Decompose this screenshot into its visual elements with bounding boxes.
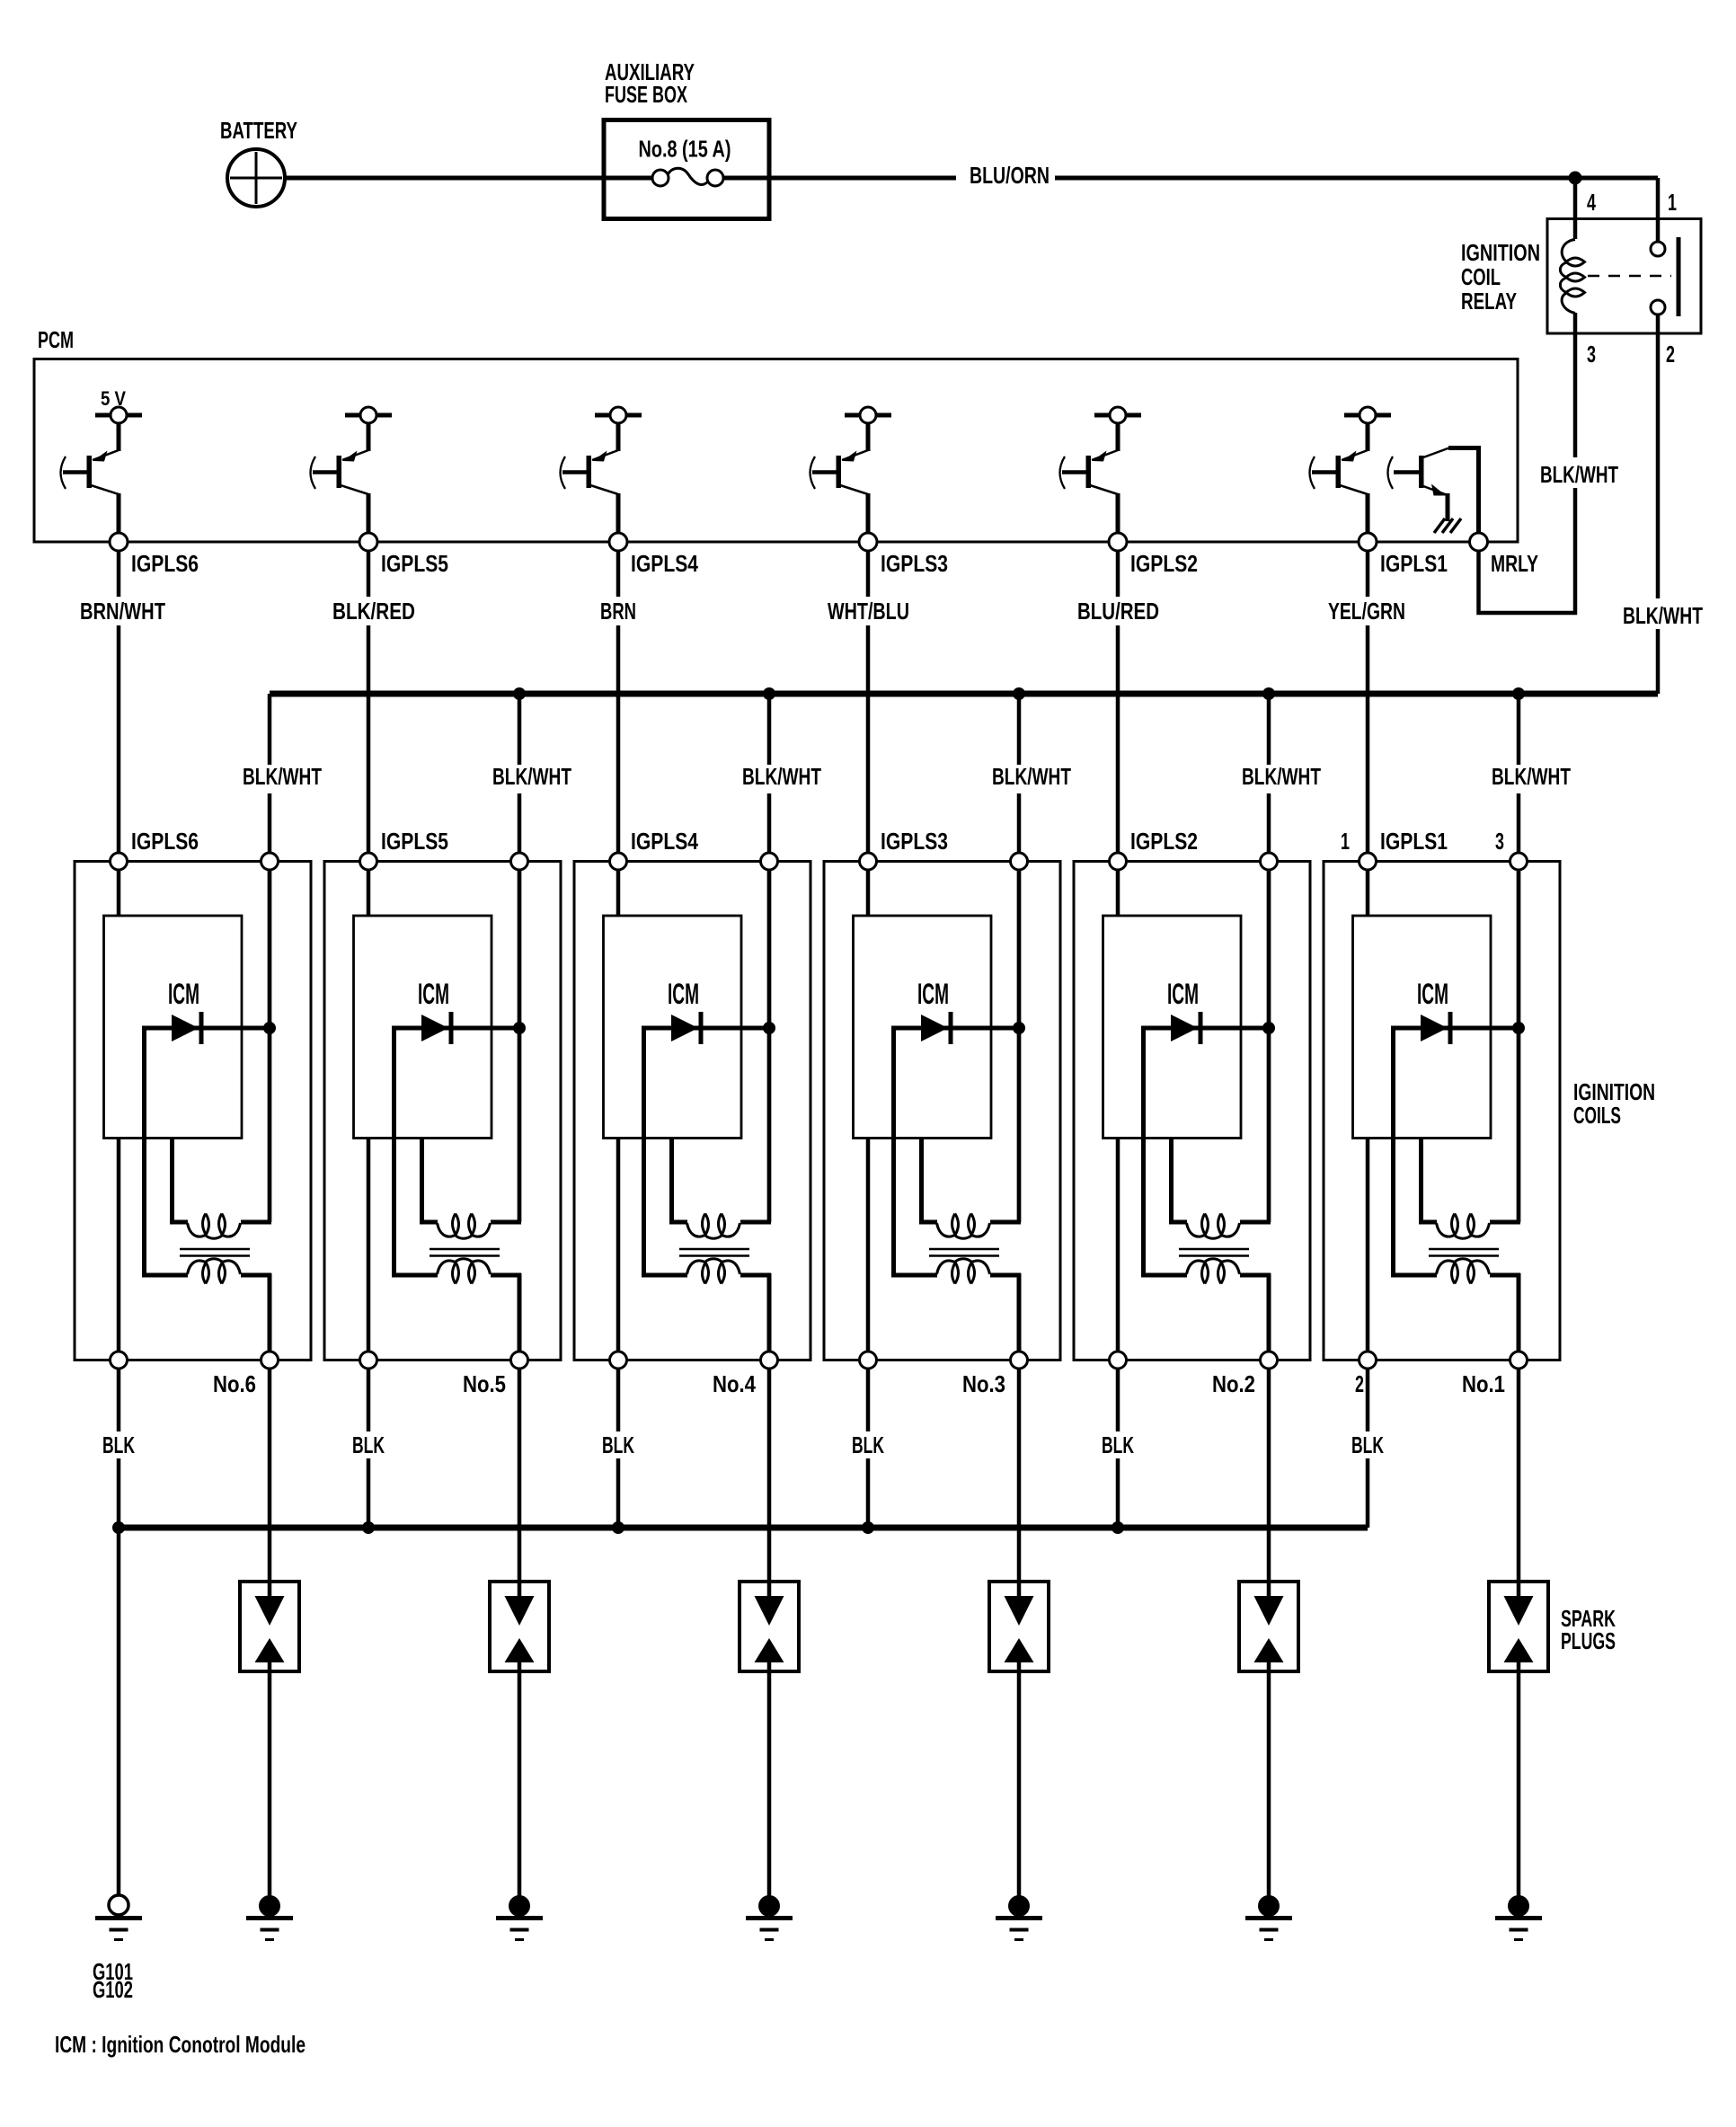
spark plug No.3 <box>989 1582 1049 1671</box>
transistor IGPLS2 driver <box>1060 407 1142 536</box>
relay actuation dashed line <box>1588 275 1671 278</box>
ground spark plug 3 <box>1008 1895 1030 1917</box>
BLK/WHT distribution bus <box>270 691 1658 697</box>
svg-text:RELAY: RELAY <box>1461 288 1517 315</box>
ground G101/G102 (open terminal) <box>109 1895 128 1915</box>
svg-text:IGPLS1: IGPLS1 <box>1380 550 1448 577</box>
wire coil No.6 secondary to spark plug <box>268 1360 272 1597</box>
svg-text:No.5: No.5 <box>463 1370 506 1397</box>
svg-text:No.8 (15 A): No.8 (15 A) <box>639 136 731 163</box>
svg-text:IGNITION: IGNITION <box>1461 239 1540 266</box>
fuse element left terminal <box>652 170 669 186</box>
svg-text:WHT/BLU: WHT/BLU <box>828 598 909 625</box>
svg-text:3: 3 <box>1587 341 1596 368</box>
wire relay pin 2 to BLK/WHT bus <box>1656 333 1661 694</box>
svg-text:ICM : Ignition Conotrol Module: ICM : Ignition Conotrol Module <box>55 2031 306 2058</box>
svg-text:FUSE BOX: FUSE BOX <box>605 81 687 108</box>
svg-text:BLK: BLK <box>352 1431 385 1458</box>
svg-text:BRN: BRN <box>600 598 636 625</box>
PCM pin IGPLS4 <box>609 533 627 551</box>
svg-text:3: 3 <box>1495 828 1504 855</box>
svg-text:BLK/WHT: BLK/WHT <box>1623 602 1703 629</box>
ignition coil No.4 (ICM + transformer) <box>574 853 810 1369</box>
fuse element wiggle <box>668 168 708 184</box>
svg-text:COIL: COIL <box>1461 263 1501 290</box>
BLK/WHT branch to ignition coil No.5 <box>518 694 522 862</box>
svg-text:No.2: No.2 <box>1212 1370 1255 1397</box>
relay contact circle top <box>1651 242 1665 256</box>
svg-text:4: 4 <box>1587 189 1596 216</box>
wire to G101/G102 ground <box>117 1528 121 1896</box>
wire coil No.3 secondary to spark plug <box>1017 1360 1022 1597</box>
wire IGPLS5 from PCM to ignition coil No.5 <box>367 542 371 862</box>
label BLK 5 <box>347 1431 390 1458</box>
wire spark plug 5 to ground <box>518 1662 522 1896</box>
wire IGPLS6 from PCM to ignition coil No.6 <box>117 542 121 862</box>
ground spark plug 6 <box>259 1895 280 1917</box>
spark plug No.4 <box>740 1582 799 1671</box>
label BLK 1 <box>1346 1431 1389 1458</box>
svg-text:IGPLS6: IGPLS6 <box>131 550 199 577</box>
PCM box <box>34 359 1518 543</box>
label BLU/ORN <box>956 165 1055 191</box>
svg-text:BLK/WHT: BLK/WHT <box>492 763 571 790</box>
svg-text:BLU/RED: BLU/RED <box>1077 598 1159 625</box>
svg-text:BLU/ORN: BLU/ORN <box>970 162 1050 189</box>
label BLK/WHT branch 4 <box>737 765 827 793</box>
relay contact circle bottom <box>1651 300 1665 315</box>
wire BLK from coil No.3 to ground bus <box>866 1360 871 1529</box>
label BLK 2 <box>1096 1431 1139 1458</box>
ignition coil No.6 (ICM + transformer) <box>75 853 311 1369</box>
wire spark plug 4 to ground <box>767 1662 772 1896</box>
svg-text:BLK/WHT: BLK/WHT <box>243 763 322 790</box>
transistor IGPLS5 driver <box>311 407 393 536</box>
transistor IGPLS4 driver <box>561 407 642 536</box>
label BLK 3 <box>846 1431 890 1458</box>
ignition coil No.3 (ICM + transformer) <box>824 853 1060 1369</box>
ignition coil No.5 (ICM + transformer) <box>324 853 561 1369</box>
svg-text:YEL/GRN: YEL/GRN <box>1328 598 1405 625</box>
PCM pin MRLY <box>1470 533 1488 551</box>
svg-text:1: 1 <box>1341 828 1350 855</box>
ground spark plug 5 <box>509 1895 530 1917</box>
svg-text:No.1: No.1 <box>1462 1370 1505 1397</box>
junction dot BLK/WHT branch 3 <box>1013 687 1025 700</box>
MRLY driver chassis ground <box>1434 518 1445 533</box>
svg-text:No.6: No.6 <box>213 1370 256 1397</box>
battery symbol <box>227 149 285 207</box>
wire spark plug 2 to ground <box>1267 1662 1271 1896</box>
junction dot at relay pin 4 branch <box>1569 172 1582 185</box>
label BLK 4 <box>597 1431 640 1458</box>
svg-text:BLK/WHT: BLK/WHT <box>1492 763 1571 790</box>
wire BLK from coil No.2 to ground bus <box>1116 1360 1120 1529</box>
svg-text:1: 1 <box>1668 189 1677 216</box>
relay coil stub bottom (pin 3) <box>1573 313 1578 333</box>
junction dot ground bus <box>862 1521 874 1534</box>
relay coil stub top (pin 4) <box>1573 219 1578 240</box>
svg-text:BLK: BLK <box>102 1431 135 1458</box>
svg-text:BLK: BLK <box>602 1431 634 1458</box>
wire BLK from coil No.4 to ground bus <box>616 1360 621 1529</box>
junction dot ground bus <box>1112 1521 1124 1534</box>
spark plug No.5 <box>490 1582 549 1671</box>
svg-text:PCM: PCM <box>38 326 74 353</box>
PCM pin IGPLS3 <box>859 533 877 551</box>
wire coil No.2 secondary to spark plug <box>1267 1360 1271 1597</box>
spark plug No.6 <box>240 1582 299 1671</box>
ground spark plug 4 <box>758 1895 780 1917</box>
svg-text:G102: G102 <box>93 1976 133 2003</box>
BLK/WHT branch to ignition coil No.2 <box>1267 694 1271 862</box>
junction dot BLK/WHT branch 5 <box>513 687 526 700</box>
svg-text:BLK/WHT: BLK/WHT <box>992 763 1071 790</box>
wire relay pin 3 to PCM MRLY (BLK/WHT) <box>1479 333 1576 613</box>
svg-text:BLK: BLK <box>1102 1431 1134 1458</box>
svg-text:IGPLS1: IGPLS1 <box>1380 828 1448 855</box>
ignition coil relay box <box>1547 219 1701 334</box>
PCM pin IGPLS5 <box>359 533 377 551</box>
svg-text:IGPLS5: IGPLS5 <box>381 550 448 577</box>
svg-text:BATTERY: BATTERY <box>220 117 297 144</box>
ignition coil No.1 (ICM + transformer) <box>1324 853 1560 1369</box>
svg-text:No.3: No.3 <box>962 1370 1005 1397</box>
svg-text:BLK/RED: BLK/RED <box>332 598 415 625</box>
svg-text:IGPLS6: IGPLS6 <box>131 828 199 855</box>
fuse element right terminal <box>707 170 723 186</box>
label BLK/WHT branch 1 <box>1486 765 1576 793</box>
wire coil No.4 secondary to spark plug <box>767 1360 772 1597</box>
svg-text:BLK/WHT: BLK/WHT <box>1540 461 1618 488</box>
wire BLK from coil No.6 to ground bus <box>117 1360 121 1529</box>
wire fuse to relay, BLU/ORN <box>723 176 1658 181</box>
auxiliary fuse box <box>604 120 769 219</box>
BLK ground bus <box>119 1525 1368 1531</box>
label YEL/GRN <box>1323 597 1411 625</box>
label BRN <box>595 597 642 625</box>
wire IGPLS1 from PCM to ignition coil No.1 <box>1366 542 1370 862</box>
wire into fuse <box>606 176 653 181</box>
svg-text:2: 2 <box>1355 1370 1364 1397</box>
BLK/WHT branch to ignition coil No.3 <box>1017 694 1022 862</box>
label BLK/WHT branch 5 <box>487 765 577 793</box>
svg-text:5 V: 5 V <box>101 387 126 410</box>
junction dot ground bus <box>612 1521 624 1534</box>
transistor IGPLS3 driver <box>810 407 892 536</box>
wire coil No.1 secondary to spark plug <box>1517 1360 1521 1597</box>
spark plug No.1 <box>1489 1582 1548 1671</box>
relay contact stub pin 2 <box>1656 315 1661 333</box>
label BLU/RED <box>1072 597 1165 625</box>
BLK/WHT branch to ignition coil No.4 <box>767 694 772 862</box>
svg-text:IGPLS2: IGPLS2 <box>1130 828 1198 855</box>
junction dot BLK/WHT branch 4 <box>763 687 775 700</box>
label BLK/WHT branch 6 <box>237 765 327 793</box>
PCM pin IGPLS2 <box>1109 533 1127 551</box>
ignition coil No.2 (ICM + transformer) <box>1074 853 1310 1369</box>
svg-text:PLUGS: PLUGS <box>1561 1627 1616 1654</box>
wire BLK from coil No.5 to ground bus <box>367 1360 371 1529</box>
junction dot ground bus <box>362 1521 375 1534</box>
label BLK/WHT branch 3 <box>987 765 1076 793</box>
ground spark plug 1 <box>1508 1895 1529 1917</box>
svg-text:IGPLS2: IGPLS2 <box>1130 550 1198 577</box>
svg-text:No.4: No.4 <box>713 1370 756 1397</box>
spark plug No.2 <box>1239 1582 1298 1671</box>
wire to relay pin 4 <box>1573 178 1578 220</box>
BLK/WHT branch to ignition coil No.1 <box>1517 694 1521 862</box>
junction dot ground bus <box>112 1521 125 1534</box>
label BLK/WHT (relay pin2 wire) <box>1619 598 1708 629</box>
label BLK/RED <box>327 597 421 625</box>
relay contact stub pin 1 <box>1656 219 1661 243</box>
svg-text:BLK: BLK <box>852 1431 884 1458</box>
transistor MRLY relay driver <box>1388 448 1482 536</box>
PCM pin IGPLS6 <box>110 533 128 551</box>
svg-text:IGPLS3: IGPLS3 <box>881 550 948 577</box>
junction dot BLK/WHT branch 1 <box>1512 687 1525 700</box>
transistor IGPLS6 driver <box>61 407 143 536</box>
label BRN/WHT <box>75 597 171 625</box>
svg-text:BLK: BLK <box>1351 1431 1384 1458</box>
wire IGPLS2 from PCM to ignition coil No.2 <box>1116 542 1120 862</box>
wire coil No.5 secondary to spark plug <box>518 1360 522 1597</box>
wire spark plug 6 to ground <box>268 1662 272 1896</box>
transistor IGPLS1 driver <box>1310 407 1392 536</box>
svg-text:BRN/WHT: BRN/WHT <box>80 598 165 625</box>
svg-text:2: 2 <box>1666 341 1675 368</box>
wire to relay pin 1 <box>1656 178 1661 220</box>
svg-text:COILS: COILS <box>1573 1102 1621 1129</box>
svg-text:MRLY: MRLY <box>1491 550 1538 577</box>
svg-text:BLK/WHT: BLK/WHT <box>1242 763 1321 790</box>
svg-text:IGPLS3: IGPLS3 <box>881 828 948 855</box>
junction dot BLK/WHT branch 2 <box>1262 687 1275 700</box>
label WHT/BLU <box>822 597 915 625</box>
svg-text:IGPLS4: IGPLS4 <box>631 828 698 855</box>
svg-text:IGPLS5: IGPLS5 <box>381 828 448 855</box>
wire IGPLS3 from PCM to ignition coil No.3 <box>866 542 871 862</box>
wire battery to fuse box <box>285 176 604 181</box>
svg-text:BLK/WHT: BLK/WHT <box>742 763 821 790</box>
label BLK/WHT (relay pin3 wire) <box>1537 457 1622 488</box>
label BLK 6 <box>97 1431 140 1458</box>
relay armature bar <box>1677 237 1681 316</box>
label BLK/WHT branch 2 <box>1236 765 1326 793</box>
wire BLK from coil No.1 to ground bus <box>1366 1360 1370 1529</box>
svg-text:IGPLS4: IGPLS4 <box>631 550 698 577</box>
PCM pin IGPLS1 <box>1359 533 1377 551</box>
BLK/WHT branch to ignition coil No.6 <box>268 694 272 862</box>
relay coil windings <box>1560 240 1575 314</box>
wire spark plug 1 to ground <box>1517 1662 1521 1896</box>
wire spark plug 3 to ground <box>1017 1662 1022 1896</box>
ground spark plug 2 <box>1258 1895 1280 1917</box>
wire IGPLS4 from PCM to ignition coil No.4 <box>616 542 621 862</box>
